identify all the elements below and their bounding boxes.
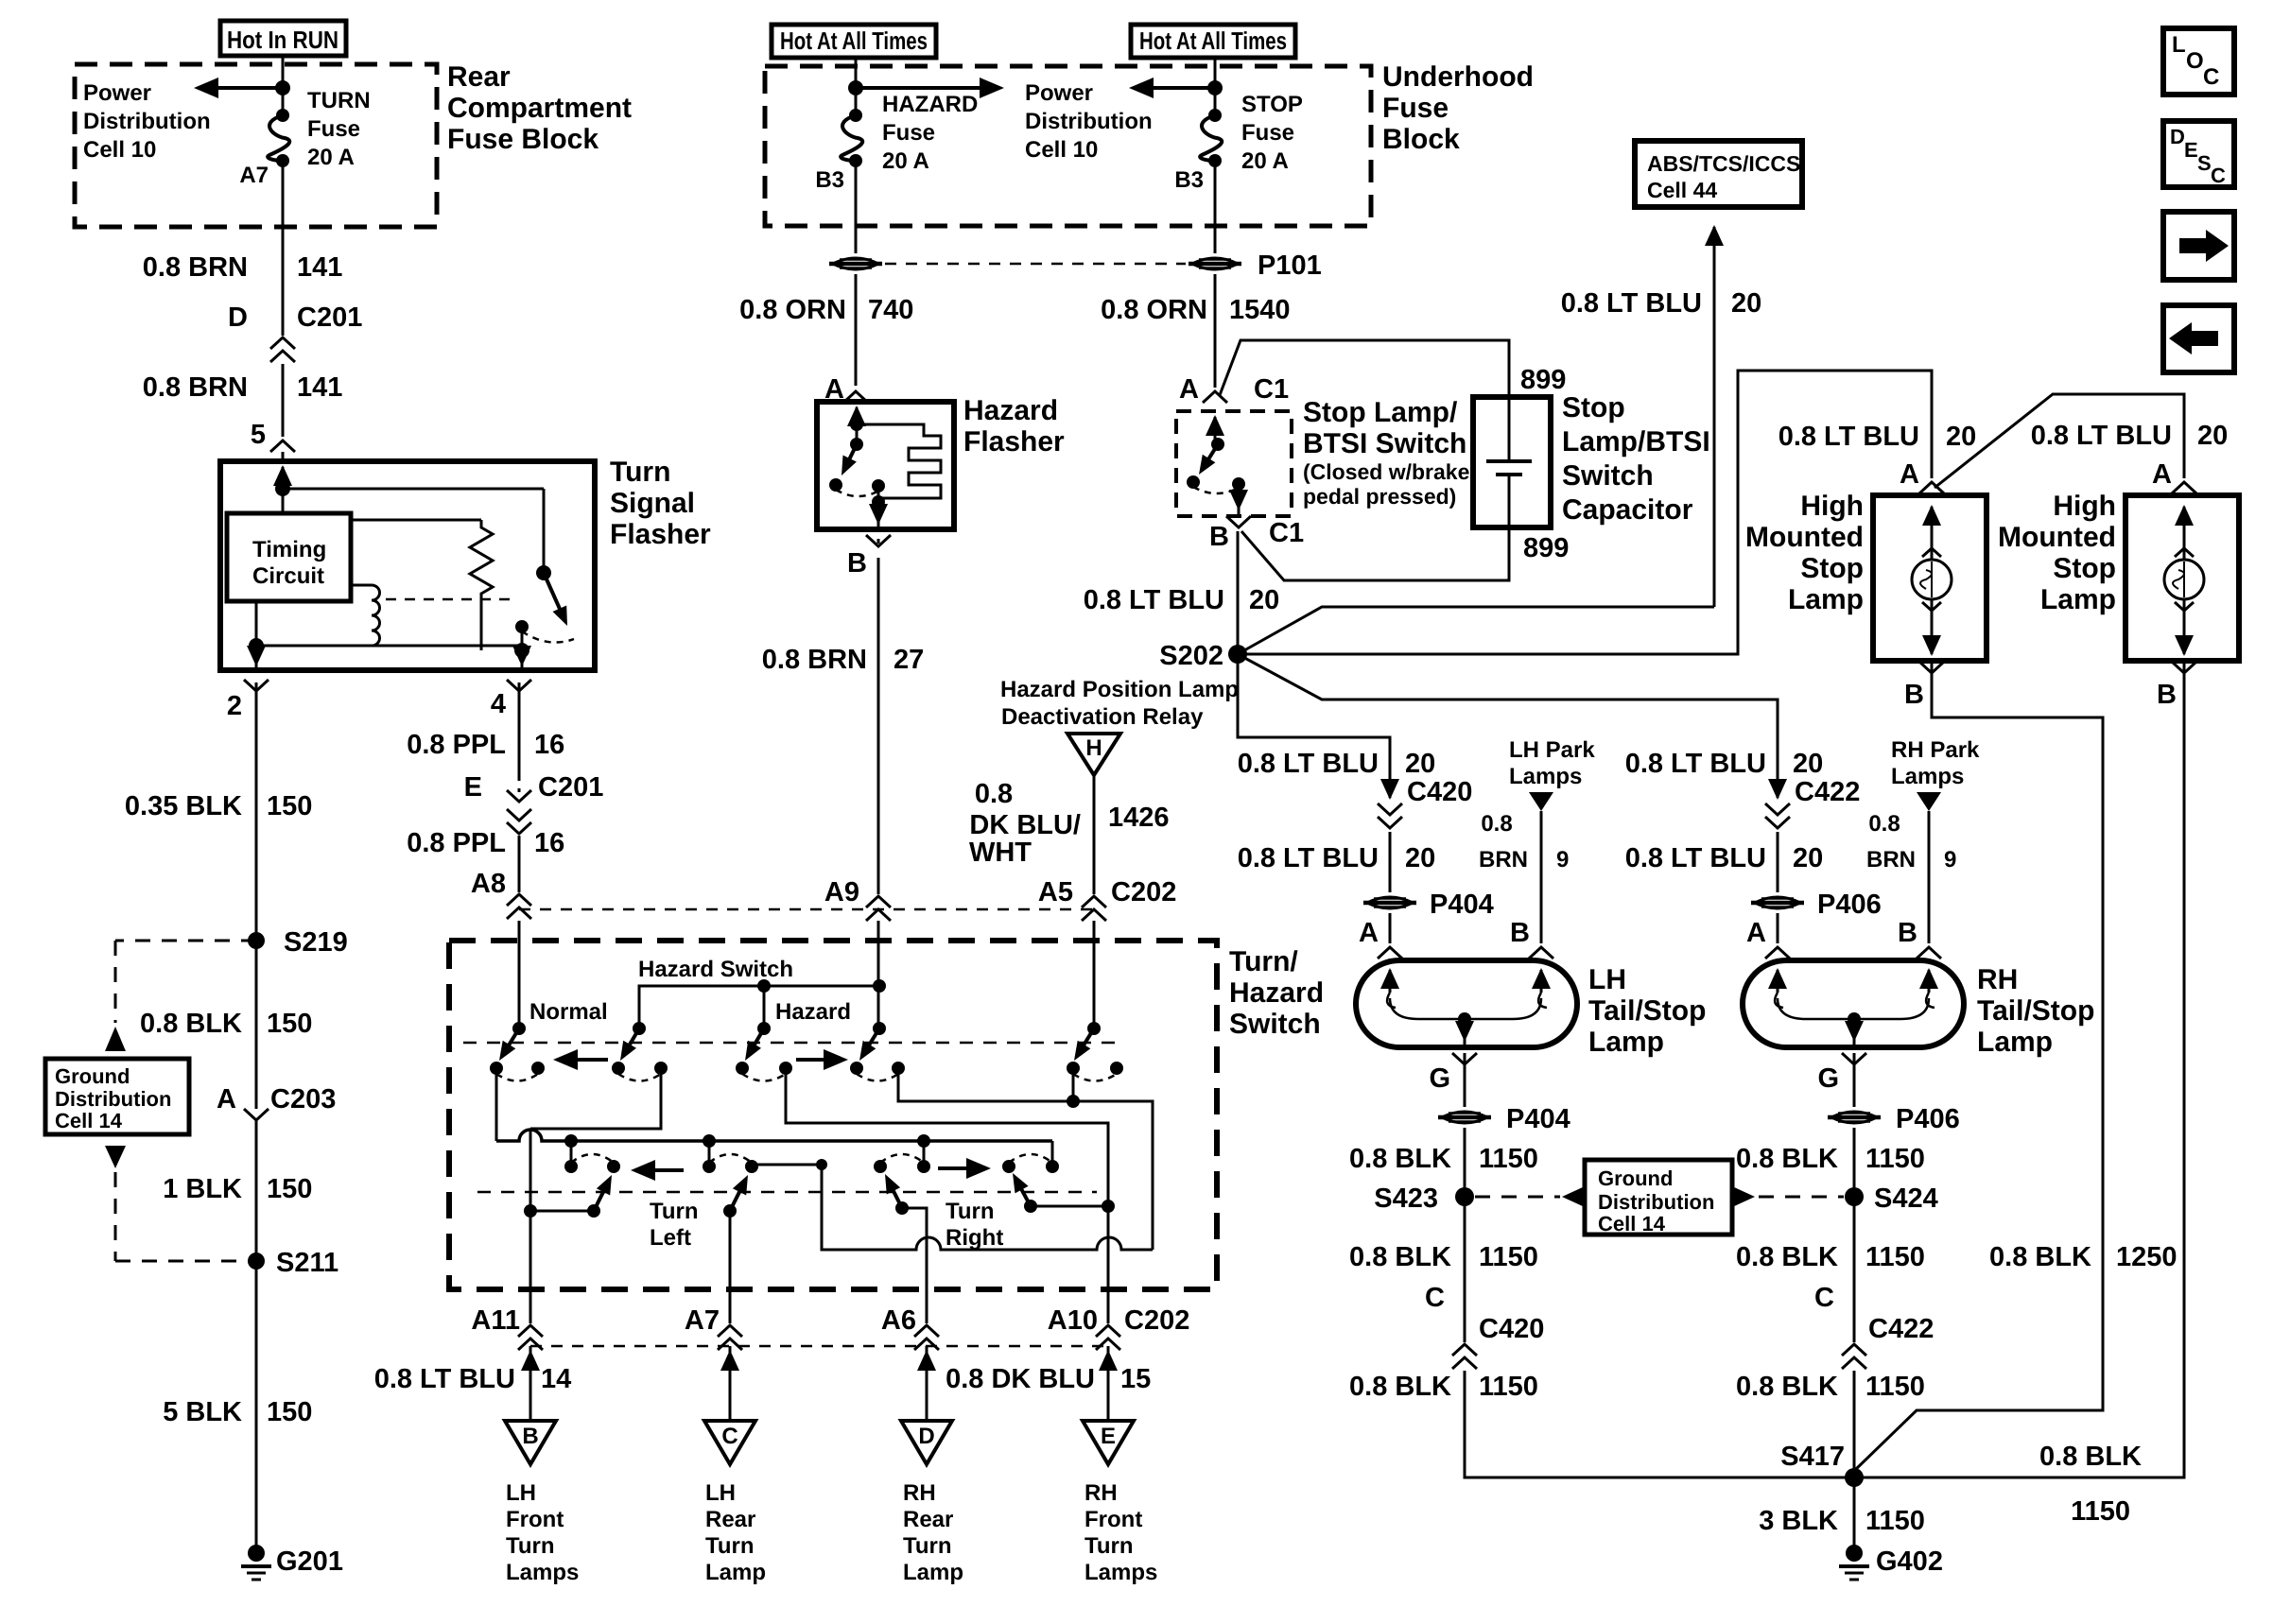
svg-text:S424: S424 (1874, 1183, 1938, 1214)
flasher internal feed wire (282, 467, 285, 499)
svg-text:0.8 LT BLU: 0.8 LT BLU (1238, 843, 1379, 873)
connector C202 dashed line (bottom) (530, 1345, 1108, 1348)
wire S417 to G402 3 BLK 1150 (1853, 1477, 1856, 1550)
wire hot to STOP fuse (1214, 58, 1217, 115)
svg-text:150: 150 (267, 1174, 312, 1204)
svg-text:Signal: Signal (610, 488, 695, 519)
svg-text:ABS/TCS/ICCS: ABS/TCS/ICCS (1647, 151, 1800, 176)
svg-text:BRN: BRN (1866, 847, 1916, 872)
mechanical link row1 dashed (463, 1042, 1116, 1045)
svg-text:9: 9 (1556, 847, 1569, 872)
hazard flasher switch arm (849, 444, 857, 460)
lamp RH tail/stop lamp (1743, 960, 1964, 1047)
svg-text:Hazard: Hazard (775, 999, 851, 1025)
flasher internal ground bus (255, 601, 258, 646)
svg-text:20 A: 20 A (1241, 148, 1289, 174)
svg-text:Fuse: Fuse (1241, 120, 1294, 146)
svg-text:B3: B3 (815, 167, 844, 193)
svg-text:0.8 LT BLU: 0.8 LT BLU (1561, 288, 1702, 319)
svg-text:B: B (2157, 680, 2177, 710)
svg-text:Ground: Ground (55, 1064, 130, 1088)
svg-text:A8: A8 (471, 869, 506, 899)
svg-text:C1: C1 (1254, 374, 1289, 405)
dashed reference ground distribution to S424 (1732, 1186, 1755, 1207)
rear compartment fuse block dashed box (75, 64, 437, 227)
destination triangle C (704, 1421, 755, 1464)
relay triangle H (1067, 734, 1120, 775)
wire RH high mount B down right edge 0.8 BLK 1150 (1854, 662, 2184, 1477)
arrow to power distribution (left) (1207, 80, 1223, 95)
pin A RH tail/stop lamp (1777, 913, 1779, 943)
svg-text:S: S (2197, 151, 2212, 175)
switch SW5 (A5) (1087, 1022, 1101, 1035)
lamp LH tail/stop lamp (1356, 960, 1577, 1047)
svg-text:Cell 14: Cell 14 (1598, 1212, 1666, 1235)
svg-text:9: 9 (1944, 847, 1956, 872)
hazard flasher feed (856, 407, 859, 432)
svg-text:0.8 BLK: 0.8 BLK (2039, 1442, 2142, 1472)
svg-text:Distribution: Distribution (1598, 1190, 1714, 1214)
svg-text:C422: C422 (1795, 777, 1860, 807)
arrow right (turn right) (938, 1166, 983, 1170)
pin B hazard flasher (866, 535, 891, 546)
svg-text:A: A (1359, 918, 1379, 948)
svg-text:Lamp/BTSI: Lamp/BTSI (1562, 426, 1710, 458)
svg-text:0.8: 0.8 (1868, 811, 1900, 837)
svg-text:S417: S417 (1780, 1442, 1845, 1472)
hazard flasher output junction (872, 479, 885, 492)
svg-text:LH: LH (506, 1480, 536, 1506)
svg-text:C203: C203 (270, 1084, 336, 1114)
wire P101 to hazard flasher A, 0.8 ORN 740 (855, 274, 858, 386)
svg-text:B: B (1209, 522, 1229, 552)
svg-text:Stop Lamp/: Stop Lamp/ (1303, 397, 1458, 428)
svg-text:16: 16 (534, 730, 564, 760)
svg-text:S423: S423 (1374, 1183, 1438, 1214)
svg-text:0.8: 0.8 (1481, 811, 1512, 837)
branch wire A/C1 to capacitor (899 circuit top) (1220, 340, 1509, 397)
svg-text:C420: C420 (1479, 1314, 1544, 1344)
svg-text:Cell 10: Cell 10 (1025, 137, 1098, 163)
svg-text:16: 16 (534, 828, 564, 858)
svg-text:Turn: Turn (1084, 1533, 1134, 1559)
wire SW1 contact to bus (495, 1068, 498, 1141)
svg-text:C201: C201 (538, 772, 603, 803)
svg-text:1540: 1540 (1229, 295, 1291, 325)
svg-text:2: 2 (227, 691, 242, 721)
splice S219 (248, 932, 265, 949)
arrow left (turn left) (638, 1168, 684, 1172)
svg-text:D: D (2170, 125, 2185, 148)
svg-text:Lamp: Lamp (1977, 1027, 2053, 1058)
svg-text:0.8 BRN: 0.8 BRN (143, 252, 248, 283)
wire A11 to LH front turn lamps, 0.8 LT BLU 14 (529, 1346, 532, 1421)
svg-text:C: C (1425, 1283, 1445, 1313)
turn/hazard switch dashed box (449, 941, 1217, 1289)
mechanical link row2 dashed (477, 1191, 1097, 1194)
svg-text:3 BLK: 3 BLK (1759, 1506, 1838, 1536)
svg-text:E: E (464, 772, 482, 803)
splice S202 (1228, 645, 1247, 664)
wire SW2 right contact to A11 (530, 1068, 661, 1129)
svg-text:A7: A7 (685, 1305, 720, 1336)
svg-text:1150: 1150 (1865, 1506, 1925, 1536)
capacitor symbol (1508, 397, 1511, 461)
svg-text:High: High (1800, 491, 1864, 522)
ABS/TCS/ICCS cell 44 box (1635, 141, 1802, 207)
dashed reference S423 to ground distribution cell 14 (1475, 1196, 1560, 1199)
legend left arrow box (2163, 305, 2234, 372)
wire TR2 pivot to A10 (1031, 1205, 1108, 1208)
svg-text:C: C (2203, 64, 2219, 90)
svg-text:G201: G201 (276, 1546, 343, 1577)
splice S417 (1845, 1468, 1864, 1487)
svg-text:Turn: Turn (506, 1533, 555, 1559)
flasher switch pivot (543, 489, 546, 573)
svg-text:141: 141 (297, 372, 342, 403)
arrow to Power Distribution Cell 10 (275, 80, 290, 95)
dashed reference wire ground distribution to S211 (105, 1146, 126, 1168)
pin A6 chevron (926, 1289, 928, 1323)
power label Hot At All Times (stop) (1131, 25, 1295, 58)
svg-text:High: High (2053, 491, 2116, 522)
pin A10 chevron and C202 (1107, 1289, 1110, 1323)
svg-text:Hot In RUN: Hot In RUN (227, 26, 338, 54)
pass-through connector P101 (hazard) (829, 258, 882, 269)
wire stop fuse to P101 (1214, 161, 1217, 253)
hazard flasher contact (829, 478, 842, 492)
svg-text:H: H (1085, 735, 1102, 761)
svg-text:0.8 DK BLU: 0.8 DK BLU (946, 1364, 1095, 1394)
connector C202 dashed line (top) (519, 908, 1094, 911)
svg-text:S211: S211 (276, 1248, 338, 1278)
svg-text:0.8 BLK: 0.8 BLK (1349, 1372, 1451, 1402)
svg-text:Power: Power (1025, 80, 1093, 106)
svg-text:G: G (1429, 1063, 1450, 1094)
svg-text:Hazard Position Lamp: Hazard Position Lamp (1000, 677, 1239, 702)
svg-text:15: 15 (1120, 1364, 1151, 1394)
switch TL2 turn-left outer (703, 1160, 716, 1173)
svg-text:Lamps: Lamps (506, 1560, 579, 1585)
ground G201 (248, 1545, 265, 1562)
ground G402 (1846, 1545, 1863, 1562)
svg-text:14: 14 (541, 1364, 571, 1394)
svg-text:0.8 LT BLU: 0.8 LT BLU (1625, 843, 1766, 873)
svg-text:Stop: Stop (2053, 553, 2116, 584)
wire hazard fuse to P101 (855, 161, 858, 253)
svg-text:C: C (2211, 164, 2226, 187)
wire S202 to RH tail lamp feed (1238, 654, 1778, 792)
flasher switch arm (544, 573, 561, 611)
wire pin4 to C201 pin E, 0.8 PPL 16 (518, 682, 521, 781)
pass-through connector P101 (stop) (1189, 258, 1241, 269)
svg-text:1150: 1150 (1479, 1242, 1538, 1272)
switch TR1 turn-right inner (874, 1160, 887, 1173)
wire S202 to ABS/TCS/ICCS cell 44 (1238, 607, 1714, 654)
BTSI switch output (1238, 490, 1241, 509)
svg-text:Power: Power (83, 80, 151, 106)
wire C422 to S417 0.8 BLK 1150 (1853, 1371, 1856, 1477)
svg-text:RH Park: RH Park (1891, 737, 1980, 763)
svg-text:A7: A7 (239, 163, 269, 188)
svg-text:1150: 1150 (1865, 1242, 1925, 1272)
svg-text:B: B (847, 548, 867, 579)
svg-text:Rear: Rear (903, 1507, 953, 1532)
svg-text:Lamps: Lamps (1509, 764, 1582, 789)
svg-text:899: 899 (1523, 533, 1569, 563)
svg-text:A: A (1179, 374, 1199, 405)
svg-text:Fuse: Fuse (307, 116, 360, 142)
svg-text:A10: A10 (1048, 1305, 1098, 1336)
ground distribution cell 14 box (right) (1585, 1160, 1732, 1235)
svg-text:TURN: TURN (307, 88, 371, 113)
svg-text:P406: P406 (1896, 1104, 1960, 1134)
svg-text:Mounted: Mounted (1745, 522, 1864, 553)
svg-text:Lamp: Lamp (903, 1560, 963, 1585)
pin G RH tail lamp (1842, 1053, 1866, 1064)
svg-text:Flasher: Flasher (610, 519, 711, 550)
svg-text:0.8 BLK: 0.8 BLK (1349, 1144, 1451, 1174)
svg-text:A6: A6 (881, 1305, 916, 1336)
svg-text:Circuit: Circuit (252, 563, 324, 589)
bus stubs to row2 contacts (570, 1141, 573, 1166)
svg-text:Turn: Turn (946, 1199, 995, 1224)
svg-text:0.8 BLK: 0.8 BLK (1349, 1242, 1451, 1272)
svg-text:150: 150 (267, 1397, 312, 1427)
svg-text:C202: C202 (1111, 877, 1176, 907)
svg-text:Distribution: Distribution (1025, 109, 1153, 134)
wire P406 to S424 0.8 BLK 1150 (1853, 1128, 1856, 1197)
svg-text:Ground: Ground (1598, 1166, 1673, 1190)
svg-text:A: A (1746, 918, 1766, 948)
svg-text:150: 150 (267, 1009, 312, 1039)
stop lamp BTSI switch dashed box (1176, 411, 1292, 516)
svg-text:LH: LH (1588, 964, 1626, 995)
svg-text:P404: P404 (1430, 890, 1494, 920)
destination triangle E (1083, 1421, 1134, 1464)
svg-text:DK BLU/: DK BLU/ (969, 810, 1081, 840)
wire C420 to S417 0.8 BLK 1150 (1465, 1371, 1848, 1477)
arrow to power distribution (right) (848, 80, 863, 95)
svg-text:O: O (2186, 48, 2204, 74)
branch wire to RH high mounted stop lamp (1935, 394, 2184, 488)
svg-text:A9: A9 (824, 877, 859, 907)
svg-text:LH Park: LH Park (1509, 737, 1595, 763)
pass-through connector P404 (feed) (1363, 897, 1416, 908)
svg-text:Block: Block (1382, 124, 1460, 155)
svg-text:L: L (2172, 32, 2186, 58)
pin 4 chevron (507, 680, 531, 691)
svg-text:C1: C1 (1269, 518, 1304, 548)
fuse TURN Fuse 20 A (276, 109, 289, 122)
svg-text:C422: C422 (1868, 1314, 1934, 1344)
svg-text:Turn: Turn (610, 457, 670, 488)
svg-text:0.8: 0.8 (975, 779, 1013, 809)
svg-text:141: 141 (297, 252, 342, 283)
svg-text:0.8 LT BLU: 0.8 LT BLU (2031, 421, 2172, 451)
wire A7 to LH rear turn lamp (729, 1346, 732, 1421)
svg-text:Timing: Timing (252, 537, 326, 562)
svg-text:pedal pressed): pedal pressed) (1303, 484, 1456, 509)
hazard switch bracket (639, 986, 879, 1028)
svg-text:Deactivation Relay: Deactivation Relay (1001, 704, 1204, 730)
svg-text:0.8 PPL: 0.8 PPL (407, 730, 506, 760)
wire fuse A7 to C201, circuit 0.8 BRN 141 (282, 161, 285, 336)
dashed connector link P101 (885, 263, 1186, 266)
switch TR2 turn-right outer (1002, 1160, 1015, 1173)
svg-text:S202: S202 (1159, 641, 1223, 671)
svg-text:0.8 LT BLU: 0.8 LT BLU (1084, 585, 1224, 615)
stop lamp BTSI switch capacitor box (1473, 397, 1551, 527)
underhood fuse block dashed box (765, 66, 1371, 226)
svg-text:Rear: Rear (447, 61, 511, 93)
svg-text:WHT: WHT (969, 838, 1032, 868)
hazard flasher box (817, 402, 954, 529)
svg-text:A: A (2152, 459, 2172, 490)
wire A9 into turn/hazard switch (877, 921, 880, 1028)
svg-text:Left: Left (650, 1225, 691, 1251)
svg-text:Hazard: Hazard (1229, 977, 1324, 1009)
svg-text:1250: 1250 (2116, 1242, 2178, 1272)
wire Hot In RUN to TURN fuse (282, 56, 285, 115)
BTSI switch contacts (1187, 475, 1200, 489)
svg-text:20 A: 20 A (882, 148, 929, 174)
svg-text:B3: B3 (1174, 167, 1204, 193)
svg-text:Compartment: Compartment (447, 93, 632, 124)
svg-text:D: D (228, 302, 248, 333)
svg-text:Cell 10: Cell 10 (83, 137, 156, 163)
svg-text:Stop: Stop (1562, 392, 1625, 423)
resistor bottom wire (480, 594, 483, 650)
wire SW4 right contact to SW5 loop (898, 1068, 1153, 1250)
svg-text:Flasher: Flasher (963, 426, 1065, 458)
branch wire B/C1 to capacitor bottom (899) (1241, 527, 1509, 580)
svg-text:1426: 1426 (1108, 803, 1170, 833)
svg-text:HAZARD: HAZARD (882, 92, 978, 117)
lamp LH high mounted stop lamp (1873, 495, 1987, 661)
svg-text:Front: Front (506, 1507, 564, 1532)
wire LH high mount B to 1250 circuit (1854, 662, 2103, 1471)
svg-text:Right: Right (946, 1225, 1003, 1251)
svg-text:C: C (721, 1424, 737, 1449)
wire A5 into turn/hazard switch (1093, 921, 1096, 1028)
wire hazard flasher B to A9, 0.8 BRN 27 (877, 539, 880, 544)
wire S219 to C203 0.8 BLK 150 (255, 941, 258, 1104)
svg-text:20: 20 (1405, 843, 1435, 873)
wire A8 into turn/hazard switch (518, 921, 521, 1028)
svg-text:0.8 BLK: 0.8 BLK (1989, 1242, 2091, 1272)
power label Hot In RUN box (220, 21, 346, 56)
svg-text:G402: G402 (1876, 1546, 1943, 1577)
svg-text:0.8 LT BLU: 0.8 LT BLU (1778, 422, 1919, 452)
svg-text:Switch: Switch (1562, 460, 1654, 492)
wire A11 to TL1 pivot (530, 1210, 594, 1213)
dashed reference wire S219 to ground distribution (115, 940, 256, 942)
svg-text:Hot At All Times: Hot At All Times (1139, 26, 1287, 55)
pin A11 chevron (529, 1289, 532, 1323)
svg-text:Cell 14: Cell 14 (55, 1109, 123, 1132)
svg-text:Rear: Rear (705, 1507, 755, 1532)
legend LOC box (2163, 28, 2234, 95)
svg-text:899: 899 (1520, 365, 1566, 395)
svg-text:RH: RH (1084, 1480, 1118, 1506)
lamp RH high mounted stop lamp (2126, 495, 2239, 661)
svg-text:Fuse: Fuse (882, 120, 935, 146)
svg-text:S219: S219 (284, 927, 348, 958)
svg-text:BTSI Switch: BTSI Switch (1303, 428, 1466, 459)
switch TL1 turn-left inner (564, 1160, 578, 1173)
svg-text:(Closed w/brake: (Closed w/brake (1303, 459, 1469, 484)
svg-text:E: E (2184, 138, 2198, 162)
svg-text:20: 20 (1405, 749, 1435, 779)
svg-text:Distribution: Distribution (83, 109, 211, 134)
splice S423 (1455, 1187, 1474, 1206)
svg-text:A: A (1900, 459, 1919, 490)
svg-text:Capacitor: Capacitor (1562, 494, 1693, 526)
wire A6 to RH rear turn lamp (926, 1346, 928, 1421)
hazard flasher output (877, 504, 880, 523)
svg-text:Hot At All Times: Hot At All Times (780, 26, 928, 55)
svg-text:B: B (1898, 918, 1917, 948)
BTSI switch feed (1214, 417, 1217, 438)
svg-text:Lamp: Lamp (1788, 584, 1864, 615)
wire A10 to RH front turn lamps, 0.8 DK BLU 15 (1107, 1346, 1110, 1421)
wire S202 to LH tail lamp feed (1238, 654, 1390, 792)
svg-text:Turn: Turn (903, 1533, 952, 1559)
hazard flasher resistor meander (857, 424, 941, 502)
flasher switch contact (515, 620, 529, 633)
svg-text:Switch: Switch (1229, 1009, 1321, 1040)
turn signal flasher box (220, 461, 595, 670)
wire C203 to S211 1 BLK 150 (255, 1120, 258, 1261)
svg-text:Stop: Stop (1800, 553, 1864, 584)
wire P404 to S423 0.8 BLK 1150 (1464, 1128, 1466, 1197)
BTSI switch arm (1208, 444, 1218, 460)
destination triangle D (901, 1421, 952, 1464)
svg-text:Lamps: Lamps (1084, 1560, 1157, 1585)
svg-text:RH: RH (903, 1480, 936, 1506)
svg-text:1150: 1150 (2071, 1496, 2130, 1527)
flasher coil (351, 585, 380, 646)
svg-text:20: 20 (1249, 585, 1279, 615)
switch SW3 hazard-right (757, 1022, 771, 1035)
wire P101 to stop lamp BTSI switch A/C1, 0.8 ORN 1540 (1214, 274, 1217, 388)
legend DESC box (2163, 121, 2234, 187)
svg-text:Lamps: Lamps (1891, 764, 1964, 789)
svg-text:RH: RH (1977, 964, 2018, 995)
switch SW1 normal (A8) (512, 1022, 526, 1035)
pass-through connector P406 (feed) (1751, 897, 1804, 908)
svg-text:4: 4 (491, 689, 506, 719)
wire B/C1 to splice S202, 0.8 LT BLU 20 (1237, 531, 1240, 654)
pin 2 chevron (244, 680, 269, 691)
svg-text:C202: C202 (1124, 1305, 1189, 1336)
svg-text:20: 20 (1946, 422, 1976, 452)
wire pin2 down 0.35 BLK 150 (255, 682, 258, 941)
svg-text:A: A (217, 1084, 236, 1114)
svg-text:0.35 BLK: 0.35 BLK (125, 791, 242, 821)
pin A LH tail/stop lamp (1389, 913, 1392, 943)
svg-text:Underhood: Underhood (1382, 61, 1534, 93)
svg-text:0.8 BLK: 0.8 BLK (1736, 1372, 1838, 1402)
svg-text:0.8 BLK: 0.8 BLK (1736, 1144, 1838, 1174)
svg-text:0.8 LT BLU: 0.8 LT BLU (1625, 749, 1766, 779)
destination triangle B (505, 1421, 556, 1464)
svg-text:20: 20 (1731, 288, 1761, 319)
svg-text:Normal: Normal (529, 999, 608, 1025)
arrow right (hazard) (796, 1058, 841, 1062)
svg-text:Hazard: Hazard (963, 395, 1058, 426)
